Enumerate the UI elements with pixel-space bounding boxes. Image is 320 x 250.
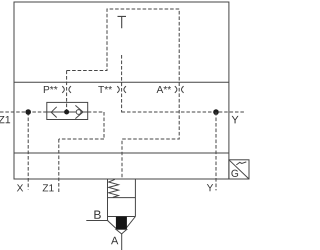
shuttle output line (dashed) xyxy=(88,111,104,113)
pilot line Y (dashed) xyxy=(215,112,217,190)
gauge box diagonal xyxy=(229,160,249,179)
label A xyxy=(111,237,118,245)
branch line to Z1 xyxy=(59,138,104,140)
lower divider line xyxy=(14,152,229,154)
label X xyxy=(17,184,23,191)
orifice A** xyxy=(175,86,184,93)
check valve seat xyxy=(75,105,83,118)
port B line xyxy=(86,220,108,222)
upper divider line xyxy=(14,81,229,83)
option box (dashed) xyxy=(67,9,180,179)
cartridge valve body xyxy=(108,179,136,221)
shuttle valve left seat arrow xyxy=(51,107,57,118)
pilot line X (dashed) xyxy=(27,112,29,190)
orifice P** xyxy=(62,86,71,93)
pilot line T (dashed) xyxy=(121,55,123,113)
shuttle valve box xyxy=(47,102,88,119)
pilot line Z1-shuttle (dashed, left) xyxy=(0,111,47,113)
label T** xyxy=(98,86,112,93)
label Z1 bottom xyxy=(43,184,54,191)
cartridge poppet xyxy=(116,217,127,230)
poppet nose triangle xyxy=(116,229,127,234)
check valve ball xyxy=(76,110,81,115)
pilot line T/Y (dashed, right) xyxy=(122,111,244,113)
gauge box G xyxy=(229,160,249,179)
label Z1 left xyxy=(0,116,10,123)
shuttle valve flow line xyxy=(47,111,88,113)
label Y bottom xyxy=(207,184,213,191)
label Y right xyxy=(232,116,239,124)
label G xyxy=(231,170,238,177)
gauge wave mark xyxy=(236,162,246,165)
label A** xyxy=(157,86,172,93)
branch down from shuttle output xyxy=(103,112,105,139)
junction node Y xyxy=(213,109,219,115)
pilot line Z1 bottom (dashed) xyxy=(58,139,60,192)
cartridge seat xyxy=(108,217,136,234)
port A line xyxy=(121,234,123,250)
junction node X xyxy=(25,109,31,115)
cartridge spring xyxy=(109,179,119,197)
label B xyxy=(94,211,100,219)
tank symbol T xyxy=(118,16,127,28)
cover plate outline xyxy=(14,2,229,179)
orifice T** xyxy=(117,86,126,93)
pilot line P (dashed) xyxy=(66,71,68,111)
label P** xyxy=(44,86,58,93)
shuttle valve junction dot xyxy=(64,110,69,115)
